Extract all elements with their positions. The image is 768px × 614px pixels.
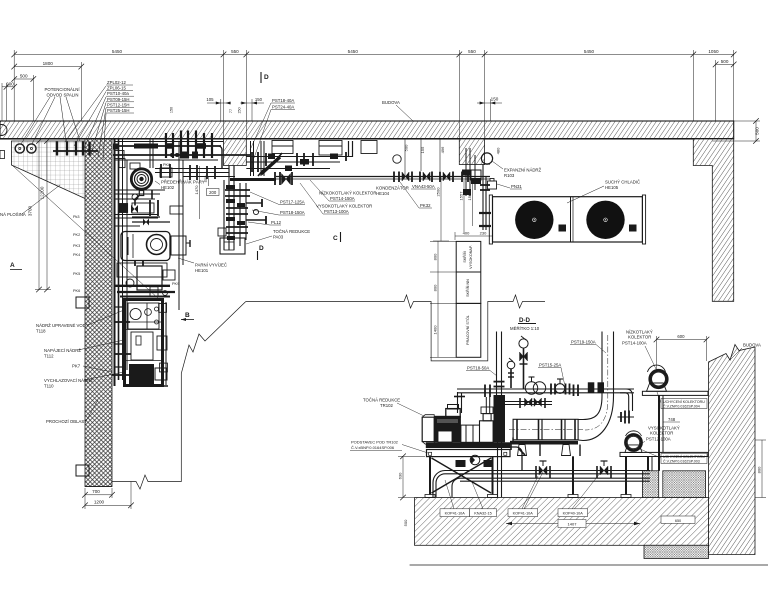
- break line plan area: [112, 302, 246, 490]
- svg-text:KNA32-15: KNA32-15: [474, 511, 492, 515]
- label KONDENZATOR HE104: [376, 186, 409, 197]
- rotated small dims above pipe: [404, 144, 501, 154]
- cooler fan 2: [586, 201, 624, 239]
- tank frame T118/T112/T110: [125, 300, 168, 386]
- svg-text:VYCHLAZOVACÍ NÁDRŽ: VYCHLAZOVACÍ NÁDRŽ: [44, 378, 93, 383]
- svg-text:650: 650: [675, 519, 681, 523]
- collector PST12: [625, 431, 642, 453]
- svg-text:KOP40-10A: KOP40-10A: [563, 511, 584, 515]
- svg-text:200: 200: [6, 81, 14, 86]
- dim 3700 vertical: [46, 141, 48, 290]
- svg-text:PST24-40A: PST24-40A: [272, 105, 294, 110]
- PN31 valve box: [488, 179, 497, 190]
- svg-text:PST18-50A: PST18-50A: [467, 366, 489, 371]
- svg-text:HE102: HE102: [161, 185, 175, 190]
- dry cooler HE105: [489, 195, 645, 244]
- svg-text:PK6: PK6: [73, 289, 80, 293]
- label UCHYCENI KOLEKTORU 2 boxed: [640, 449, 707, 464]
- dim 12200 vertical: [38, 141, 40, 290]
- svg-text:PROCHOZÍ OBLAST: PROCHOZÍ OBLAST: [46, 419, 87, 424]
- wall: top band: [0, 121, 734, 139]
- svg-text:PARNÍ VYVÍJEČ: PARNÍ VYVÍJEČ: [195, 263, 227, 268]
- svg-text:105: 105: [206, 97, 214, 102]
- dim 2500 vertical: [433, 177, 449, 241]
- PK labels on wall: [73, 215, 80, 293]
- svg-text:1200: 1200: [94, 500, 105, 505]
- svg-text:PK3: PK3: [73, 244, 80, 248]
- fittings bay2: [252, 141, 353, 172]
- labels collectors: [316, 191, 376, 215]
- label R103: [504, 168, 542, 179]
- safety valve 1: [507, 358, 515, 388]
- svg-text:Pk3: Pk3: [73, 215, 80, 219]
- dim 200 boxed: [207, 189, 220, 196]
- dim 800 right edge rotated: [755, 440, 766, 498]
- section title D-D: [510, 317, 540, 331]
- svg-text:SUCHÝ CHLADIČ: SUCHÝ CHLADIČ: [605, 180, 640, 185]
- label PK32: [400, 182, 432, 208]
- bench legs right: [568, 456, 631, 497]
- black fittings bay2: [268, 154, 338, 172]
- dim 500 left: [14, 78, 33, 80]
- svg-text:550: 550: [468, 49, 476, 54]
- text: riser line labels: [107, 80, 129, 113]
- pipe turn to collector: [620, 389, 633, 411]
- svg-text:POTENCIONÁLNÍ: POTENCIONÁLNÍ: [45, 87, 81, 92]
- vertical feed pipe to cooler: [479, 164, 491, 230]
- valve cluster 1 on main pipe: [275, 172, 292, 185]
- svg-text:500: 500: [755, 127, 760, 135]
- floor slab (section): [415, 498, 709, 546]
- svg-text:PK9: PK9: [172, 282, 179, 286]
- svg-text:PST10-40a: PST10-40a: [107, 91, 129, 96]
- baseline: [410, 564, 768, 566]
- riser header pipe left: [53, 150, 98, 152]
- svg-text:PK7: PK7: [72, 364, 81, 369]
- platform grid triangle: [11, 141, 85, 199]
- bay horizontal pipes mid: [115, 190, 165, 199]
- wall: building right (section): [709, 345, 756, 555]
- wall: left vertical: [85, 139, 112, 487]
- svg-text:NÍZKOKOTLAKÝ KOLEKTOR: NÍZKOKOTLAKÝ KOLEKTOR: [319, 191, 376, 196]
- dim 200 left: [2, 86, 14, 88]
- flange pair right on upper pipe: [574, 385, 579, 397]
- svg-text:500: 500: [403, 519, 408, 526]
- svg-text:550: 550: [231, 49, 239, 54]
- svg-text:T112: T112: [44, 354, 54, 359]
- wall-mounted box left edge: [0, 151, 5, 159]
- risers cluster left of pier A: [166, 131, 212, 159]
- wall: right step: [693, 139, 733, 301]
- outrigger boxes on wall: [76, 297, 89, 476]
- dim 105 small: [207, 99, 231, 121]
- svg-text:T110: T110: [44, 384, 54, 389]
- bundle side valves: [246, 199, 266, 224]
- vertical pipe to floor: [498, 442, 502, 497]
- valve w stem lower 1: [536, 461, 550, 478]
- lower pipe left elbow: [433, 471, 460, 498]
- svg-text:NÁ PLOŠINA: NÁ PLOŠINA: [0, 212, 26, 217]
- equipment cluster upper (fittings): [115, 142, 235, 215]
- svg-text:150: 150: [491, 97, 499, 102]
- svg-text:PST15-25A: PST15-25A: [539, 363, 561, 368]
- svg-text:500: 500: [404, 144, 409, 151]
- svg-text:2500: 2500: [436, 187, 441, 197]
- dim 500 right edge vertical: [755, 121, 757, 141]
- svg-text:PK5: PK5: [73, 272, 80, 276]
- svg-text:PK32: PK32: [420, 203, 431, 208]
- leader HE102: [155, 181, 160, 185]
- section marker D top: [261, 72, 269, 83]
- reducer box PA03: [218, 228, 245, 254]
- svg-text:Č.V.ZNP.0.0162SP.003: Č.V.ZNP.0.0162SP.003: [663, 458, 700, 463]
- svg-text:PN31: PN31: [511, 184, 522, 189]
- label UCHYCENI KOLEKTORU 1 boxed: [657, 392, 707, 409]
- svg-text:PL12: PL12: [271, 220, 282, 225]
- text HE101: [195, 263, 227, 274]
- risers in grid area: [57, 142, 90, 156]
- extension lines: [13, 50, 15, 121]
- svg-text:5450: 5450: [584, 49, 595, 54]
- svg-text:VYSOKONAP.: VYSOKONAP.: [469, 245, 473, 269]
- floor label boxes: [440, 509, 695, 524]
- svg-text:400: 400: [463, 231, 470, 236]
- svg-text:5450: 5450: [348, 49, 359, 54]
- svg-text:A: A: [10, 262, 15, 269]
- bundle flanges: [225, 190, 250, 233]
- svg-text:77: 77: [229, 109, 233, 113]
- leaders from floor boxes: [445, 472, 601, 509]
- lower pipe run 1: [445, 471, 650, 474]
- dim 1800: [14, 66, 81, 68]
- svg-text:KOLEKTOR: KOLEKTOR: [650, 431, 673, 436]
- frame rail under drum: [510, 441, 578, 456]
- label PN31: [497, 184, 522, 189]
- dim 500 right: [716, 63, 734, 65]
- collector PST14: [647, 365, 668, 391]
- motor TR102: [422, 405, 461, 445]
- svg-text:PST25-15H: PST25-15H: [107, 108, 129, 113]
- svg-text:HE101: HE101: [195, 268, 209, 273]
- small fittings left of tanks: [112, 322, 131, 375]
- pipes to tanks: [115, 215, 158, 227]
- label NIZKOTLAKY KOLEKTOR: [622, 330, 653, 346]
- section marker C: [333, 232, 341, 242]
- pipe drops pier B cluster: [466, 148, 475, 196]
- svg-text:PST17-125A: PST17-125A: [280, 200, 305, 205]
- wall-mounted boxes bay2: [272, 141, 377, 156]
- left wall bottom edge: [85, 486, 112, 488]
- riser pair mid bay: [150, 139, 153, 168]
- pipe drops bay2: [251, 141, 265, 176]
- collector connection flanges: [618, 411, 635, 424]
- svg-text:HE104: HE104: [376, 191, 390, 196]
- leader platform: [22, 185, 60, 214]
- equipment bay frame line: [114, 139, 116, 386]
- wall header pipes left bay: [113, 146, 250, 168]
- label BUDOVA top: [382, 100, 413, 121]
- svg-text:D: D: [264, 74, 269, 81]
- preheater HE102: [131, 169, 151, 206]
- svg-text:SKŘÍŇ: SKŘÍŇ: [462, 251, 467, 263]
- svg-text:TR102: TR102: [380, 403, 394, 408]
- svg-text:480: 480: [496, 147, 501, 154]
- svg-text:1800: 1800: [43, 61, 54, 66]
- svg-text:D-D: D-D: [519, 317, 531, 324]
- bay right frame line: [179, 141, 183, 310]
- svg-text:3700: 3700: [28, 205, 33, 216]
- cooler fan 1: [515, 201, 553, 239]
- dense tank block bottom: [124, 364, 168, 386]
- svg-text:200: 200: [209, 190, 217, 195]
- leader lines: POTENCIONALNI ODVOD SPALIN: [21, 97, 80, 144]
- collector shelf 2: [620, 452, 708, 470]
- dim 748: [663, 417, 680, 422]
- svg-text:TOČNÁ REDUKCE: TOČNÁ REDUKCE: [273, 229, 310, 234]
- upper pipe run: [454, 385, 634, 415]
- svg-text:PRACOVNÍ STŮL: PRACOVNÍ STŮL: [465, 315, 470, 345]
- exchanger drum: [509, 419, 583, 440]
- dim 150 mid: [477, 102, 502, 104]
- svg-text:VYSOKOTLAKÝ KOLEKTOR: VYSOKOTLAKÝ KOLEKTOR: [316, 204, 372, 209]
- dim 700: [85, 494, 112, 496]
- rotated small dims pier A: [170, 107, 242, 114]
- svg-text:TOČNÁ REDUKCE: TOČNÁ REDUKCE: [363, 398, 400, 403]
- main pipe to condenser: [230, 177, 490, 180]
- svg-text:496: 496: [440, 146, 445, 153]
- leader HE101: [178, 258, 194, 263]
- flue circle 2: [27, 144, 36, 153]
- lower pipe run 2: [460, 478, 650, 481]
- svg-text:KONDENZÁTOR: KONDENZÁTOR: [376, 186, 409, 191]
- valve pair on upper pipe: [525, 377, 545, 394]
- svg-text:230: 230: [480, 231, 487, 236]
- frame mid verticals: [513, 438, 580, 457]
- bundle black fittings: [226, 185, 245, 240]
- svg-text:PST09-15H: PST09-15H: [107, 97, 129, 102]
- small elbow fitting mid: [508, 444, 525, 471]
- column circle top-left corner: [0, 125, 7, 136]
- svg-text:PODSTAVEC POD TR102: PODSTAVEC POD TR102: [351, 440, 399, 445]
- svg-text:PK4: PK4: [73, 253, 80, 257]
- pump riser block: [494, 395, 506, 442]
- base frame: [426, 442, 511, 456]
- svg-text:PŘEDEHŘÍVÁK PÁRY: PŘEDEHŘÍVÁK PÁRY: [161, 180, 205, 185]
- svg-text:1050: 1050: [708, 49, 719, 54]
- leader lines: ZPL/PST stack to risers: [65, 86, 106, 160]
- svg-text:PST18-40A: PST18-40A: [272, 98, 294, 103]
- bench legs left: [425, 456, 498, 497]
- labels PST17 PST18 PL12 PA03: [271, 200, 310, 240]
- svg-text:800: 800: [432, 284, 437, 291]
- dim 150 small (pier A): [240, 99, 264, 121]
- svg-text:BUDOVA: BUDOVA: [382, 100, 400, 105]
- svg-text:PST18-150A: PST18-150A: [280, 210, 305, 215]
- svg-text:748: 748: [668, 417, 676, 422]
- bundle elbow to pipe: [224, 166, 234, 251]
- valve w stem lower 2: [597, 461, 611, 478]
- svg-text:C: C: [333, 235, 338, 242]
- svg-text:1407: 1407: [568, 522, 578, 527]
- under-bench black fittings: [456, 460, 492, 467]
- svg-text:KOLEKTOR: KOLEKTOR: [628, 335, 651, 340]
- svg-text:KOP41-10A: KOP41-10A: [513, 511, 534, 515]
- label BUDOVA section: [730, 343, 761, 361]
- section marker D bottom: [258, 245, 265, 260]
- svg-text:Č.V.ZNP.0.0162SP.004: Č.V.ZNP.0.0162SP.004: [663, 403, 700, 408]
- gauge: [470, 455, 480, 465]
- svg-text:155: 155: [420, 146, 425, 153]
- label HE105: [605, 180, 640, 191]
- svg-text:1470: 1470: [194, 185, 199, 195]
- label TOCNA REDUKCE TR102: [363, 398, 400, 409]
- svg-text:PST13-100A: PST13-100A: [324, 209, 349, 214]
- fittings near pier B: [462, 170, 481, 182]
- foundation block 1: [642, 471, 658, 498]
- cabinet dims: [430, 241, 456, 357]
- svg-text:500: 500: [20, 74, 28, 79]
- valve cluster 2: [393, 155, 412, 182]
- text HE102: [161, 180, 205, 191]
- dim 600 collector: [657, 336, 707, 369]
- wall-mounted box bay1: [115, 151, 124, 159]
- cabinet boxes: [456, 241, 481, 357]
- svg-text:D: D: [259, 245, 264, 252]
- pump TR102: [480, 407, 494, 442]
- foundation block 2: [663, 471, 706, 498]
- section marker A: [10, 262, 22, 270]
- footing block under floor: [644, 545, 709, 558]
- dim 630 left of section: [398, 456, 425, 497]
- svg-text:800: 800: [757, 466, 762, 473]
- labels left tanks: [36, 323, 93, 424]
- svg-text:1400: 1400: [432, 325, 437, 335]
- svg-text:HE105: HE105: [605, 185, 619, 190]
- svg-text:KOP41-10A: KOP41-10A: [445, 511, 466, 515]
- bundle pipes: [229, 166, 246, 251]
- svg-text:UCHYCENÍ KOLEKTORU: UCHYCENÍ KOLEKTORU: [663, 400, 705, 404]
- label VYSOKOTLAKY KOLEKTOR PST12: [646, 426, 680, 442]
- label PODSTAVEC POD TR102: [350, 440, 428, 454]
- svg-text:PST12-15H: PST12-15H: [107, 102, 129, 107]
- safety valve 2: [519, 336, 528, 389]
- svg-text:ODVOD SPALIN: ODVOD SPALIN: [47, 93, 79, 98]
- secondary pipe stub: [500, 398, 552, 408]
- svg-text:EXPANZNÍ NÁDRŽ: EXPANZNÍ NÁDRŽ: [504, 168, 542, 173]
- expansion vessel R103: [481, 153, 492, 164]
- wall pier B: [459, 139, 484, 165]
- coupling: [461, 425, 480, 442]
- text: POTENCIONALNI ODVOD SPALIN: [45, 87, 81, 98]
- svg-text:Č.V.xBNP.0.0164SP.006: Č.V.xBNP.0.0164SP.006: [351, 445, 395, 450]
- dim labels top: [6, 49, 759, 135]
- flange pair on upper pipe: [588, 382, 604, 393]
- svg-text:150: 150: [255, 97, 263, 102]
- label PST15-25A: [538, 363, 565, 385]
- cabinet rotated texts: [462, 245, 473, 345]
- dims 1557: [455, 180, 493, 240]
- label VNA43-50A: [411, 184, 436, 189]
- vertical pipe main: [494, 332, 505, 396]
- big elbow: [578, 332, 613, 441]
- svg-text:VNA43-50A: VNA43-50A: [412, 184, 435, 189]
- svg-text:MĚŘÍTKO 1:10: MĚŘÍTKO 1:10: [510, 326, 540, 331]
- svg-text:NAPÁJECÍ NÁDRŽ: NAPÁJECÍ NÁDRŽ: [44, 348, 81, 353]
- svg-text:500: 500: [721, 59, 729, 64]
- diagonal pipe: [258, 153, 282, 176]
- svg-text:1557: 1557: [467, 191, 472, 201]
- flue circle 1: [15, 144, 24, 153]
- svg-text:T118: T118: [36, 329, 46, 334]
- labels PST18-40A / PST24-40A: [272, 98, 294, 110]
- svg-text:5450: 5450: [112, 49, 123, 54]
- svg-text:700: 700: [92, 489, 100, 494]
- svg-text:ZPL02-12: ZPL02-12: [107, 80, 126, 85]
- dim ticks top: [4, 52, 759, 144]
- label PST19-150A: [570, 340, 606, 354]
- svg-text:UCHYCENÍ KOLEKTORU: UCHYCENÍ KOLEKTORU: [663, 455, 705, 459]
- label PST18-50A: [466, 366, 497, 377]
- svg-text:150: 150: [170, 107, 174, 113]
- dim chain top: [14, 53, 734, 55]
- valve bowties mid bay: [131, 205, 149, 226]
- vertical dims 1470/500: [200, 166, 209, 219]
- collector shelf 1: [642, 391, 708, 471]
- svg-text:SKŘÍŇ NN: SKŘÍŇ NN: [465, 279, 470, 297]
- svg-text:BUDOVA: BUDOVA: [743, 343, 761, 348]
- vertical pipes in bay: [119, 139, 128, 380]
- wall pier A: [224, 139, 247, 166]
- svg-text:R103: R103: [504, 173, 515, 178]
- svg-text:600: 600: [677, 334, 685, 339]
- svg-text:PA03: PA03: [273, 235, 284, 240]
- section marker B: [181, 312, 194, 321]
- svg-text:PST19-150A: PST19-150A: [571, 340, 596, 345]
- dim 1407: [506, 520, 640, 528]
- drops from wall to pipe: [405, 139, 440, 176]
- flanged valve PST15: [551, 379, 570, 395]
- svg-text:PST12-100A: PST12-100A: [646, 437, 671, 442]
- valve cluster 3: [420, 172, 453, 183]
- leader lines tanks: [78, 310, 124, 421]
- dim 1200: [85, 504, 131, 506]
- svg-text:ZPL06-15: ZPL06-15: [107, 86, 126, 91]
- svg-text:150: 150: [237, 107, 241, 113]
- svg-text:B: B: [185, 312, 190, 319]
- cluster below HE101: [117, 263, 175, 297]
- svg-text:1557: 1557: [458, 191, 463, 201]
- svg-text:800: 800: [432, 253, 437, 260]
- cooler junction boxes: [559, 225, 637, 232]
- diagonal leader across wall: [13, 166, 160, 300]
- svg-text:630: 630: [398, 472, 403, 479]
- svg-text:500: 500: [203, 175, 208, 182]
- svg-text:NÁDRŽ UPRAVENÉ VODY: NÁDRŽ UPRAVENÉ VODY: [36, 323, 89, 328]
- svg-text:PK2: PK2: [73, 233, 80, 237]
- svg-text:PST14-100A: PST14-100A: [622, 341, 647, 346]
- steam generator HE101: [121, 232, 190, 261]
- valve blobs on bay pipes: [113, 143, 206, 158]
- header pipes bay2: [246, 157, 352, 169]
- svg-text:PST14-150A: PST14-150A: [330, 196, 355, 201]
